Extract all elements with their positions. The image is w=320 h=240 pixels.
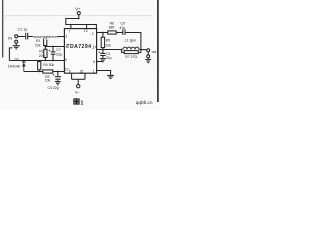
svg-text:R4 30k: R4 30k <box>43 63 54 67</box>
svg-text:D1: D1 <box>15 57 19 61</box>
svg-text:10k: 10k <box>45 79 51 83</box>
svg-text:1N4148: 1N4148 <box>8 64 20 68</box>
svg-text:C1 1μ: C1 1μ <box>18 28 28 32</box>
wire pin15 stub <box>84 73 86 79</box>
svg-text:9: 9 <box>65 58 67 62</box>
wire V+ stem <box>78 15 80 19</box>
svg-text:14: 14 <box>92 44 97 49</box>
capacitor C1 <box>25 33 27 40</box>
wire pin13 stub <box>86 25 88 29</box>
wire C9 to output node <box>125 33 141 50</box>
wire output rail <box>103 49 122 51</box>
resistor R6 <box>103 32 108 34</box>
svg-text:C3 22μ: C3 22μ <box>48 86 59 90</box>
svg-text:7: 7 <box>69 30 71 34</box>
svg-text:R5: R5 <box>106 39 110 43</box>
svg-text:22μ: 22μ <box>106 56 112 60</box>
node out terminal <box>147 49 150 52</box>
diode D1 1N4148 <box>23 61 25 63</box>
svg-text:V+: V+ <box>75 6 81 11</box>
resistor R4 <box>38 62 41 70</box>
ground output <box>147 58 149 59</box>
wire C1 to pin3 <box>28 36 65 38</box>
wire V+ bus <box>66 19 97 29</box>
wire pin14 stub <box>97 49 103 51</box>
resistor R1 <box>44 38 47 45</box>
node junction C7 top <box>52 46 54 48</box>
node junction C7 bottom <box>52 60 54 62</box>
wire pin4 rail <box>45 46 64 48</box>
ground C4 <box>100 58 106 60</box>
capacitor C7 <box>52 47 54 52</box>
svg-text:out: out <box>152 50 157 54</box>
svg-text:3: 3 <box>65 34 67 38</box>
wire pin2 stub <box>97 32 103 34</box>
svg-text:1: 1 <box>93 70 95 74</box>
op-amp U1 TDA7294 body <box>64 29 96 74</box>
svg-text:15: 15 <box>79 70 83 74</box>
wire V- stem <box>77 79 79 84</box>
wire mute bus2 <box>24 71 65 73</box>
svg-text:22k: 22k <box>35 43 41 47</box>
svg-text:C7: C7 <box>56 48 61 52</box>
node output junction <box>102 49 104 51</box>
node IN terminal shield <box>15 40 18 43</box>
wire ground drop to mute bus <box>9 48 12 61</box>
caption figure 1 <box>74 99 79 104</box>
resistor R3 <box>43 70 53 73</box>
capacitor C4 <box>102 50 104 54</box>
capacitor C9 <box>122 30 124 35</box>
ground input jack <box>15 43 17 45</box>
svg-text:R7 27Ω: R7 27Ω <box>125 55 137 59</box>
svg-text:IN: IN <box>8 35 12 40</box>
wire pin6 stub <box>97 61 103 63</box>
node junction R1 top <box>44 36 46 38</box>
svg-text:V−: V− <box>75 90 81 94</box>
svg-text:8: 8 <box>69 70 71 74</box>
node out return terminal <box>147 55 150 58</box>
svg-text:L1 3μH: L1 3μH <box>125 38 137 42</box>
svg-text:6: 6 <box>93 60 95 64</box>
wire V- bus <box>72 78 85 80</box>
svg-text:4: 4 <box>66 45 68 49</box>
svg-text:R2: R2 <box>39 49 44 53</box>
svg-text:13: 13 <box>84 29 88 33</box>
svg-text:680: 680 <box>109 26 115 30</box>
resistor R5 <box>102 33 104 38</box>
ground C3 <box>55 81 61 83</box>
wire pin1 to ground <box>97 71 111 76</box>
inductor L1 <box>123 47 139 49</box>
svg-text:2: 2 <box>92 32 94 36</box>
ground pin1 <box>107 74 114 76</box>
svg-text:22k: 22k <box>105 44 111 48</box>
svg-text:1: 1 <box>80 100 83 106</box>
svg-text:47μ: 47μ <box>120 26 126 30</box>
page left border <box>2 0 4 58</box>
wire to out terminal <box>141 49 147 51</box>
svg-text:20k: 20k <box>39 54 45 58</box>
node V+ terminal <box>77 12 80 15</box>
node junction R2 bottom <box>45 60 47 62</box>
page right border <box>157 0 159 102</box>
wire R1 bottom <box>44 46 46 47</box>
svg-text:R1: R1 <box>36 39 41 43</box>
node junction C3 top <box>57 71 59 73</box>
node junction R2 top <box>44 46 46 48</box>
resistor R2 <box>44 49 47 57</box>
faint rule line <box>5 16 152 19</box>
resistor R7 <box>122 50 125 53</box>
node IN terminal signal <box>15 35 18 38</box>
svg-text:qqbb.cn: qqbb.cn <box>136 100 153 105</box>
node V- terminal <box>77 85 80 88</box>
svg-text:www.qqbb.cn: www.qqbb.cn <box>33 34 57 39</box>
svg-text:22μ: 22μ <box>56 53 62 57</box>
wire pin8 stub <box>71 73 73 79</box>
wire pin7 stub <box>70 25 72 29</box>
wire input to C1 <box>18 36 25 38</box>
capacitor C3 <box>57 72 59 77</box>
svg-text:TDA7294: TDA7294 <box>66 44 91 50</box>
wire stby bus1 <box>9 60 64 62</box>
